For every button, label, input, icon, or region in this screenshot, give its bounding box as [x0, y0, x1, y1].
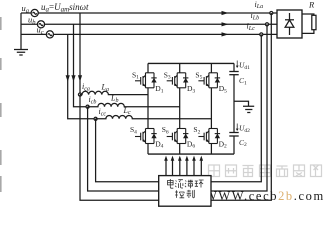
wire phase B line — [45, 23, 277, 25]
watermark row 1 (chinese outline chars) — [209, 165, 322, 177]
wire DC top rail — [148, 62, 234, 64]
gate signal arrow 3 — [178, 156, 182, 176]
svg-text:R: R — [308, 0, 315, 10]
transistor S5 + diode D5 — [198, 73, 220, 88]
ground (DC midpoint) — [243, 106, 254, 112]
wire phase C line — [54, 33, 278, 35]
wire DC bottom rail — [148, 153, 234, 155]
wire leg C bottom — [210, 144, 212, 155]
control box text line1: dian liu zhi huan — [168, 179, 204, 188]
inductor La — [80, 91, 148, 94]
wire tap B vertical — [74, 24, 88, 106]
transistor S6 + diode D6 — [167, 129, 189, 144]
node dot B (inductor input) — [86, 105, 89, 108]
wire load feedback C — [211, 34, 261, 181]
wire C1 to C2 — [233, 75, 235, 133]
source bus wire — [20, 13, 22, 50]
inductor Lb — [88, 103, 180, 106]
gate signal arrow 4 — [185, 156, 189, 176]
gate signal arrow 5 — [192, 156, 196, 176]
left edge scan artifacts — [0, 17, 2, 192]
label Ud1 arrow — [236, 61, 238, 68]
wire APF feedback B — [88, 107, 159, 191]
arrow iLb — [222, 22, 229, 26]
transistor S4 + diode D4 — [135, 129, 157, 144]
capacitor C1 — [233, 63, 235, 71]
wire APF feedback C — [96, 119, 159, 182]
AC source uc — [46, 31, 53, 38]
control box text line2: kong zhi — [175, 190, 194, 198]
wire leg A mid — [147, 88, 149, 129]
wire phase A left — [21, 12, 31, 14]
inductor Lc — [96, 116, 212, 119]
node dot C (inductor input) — [94, 117, 97, 120]
wire leg B bottom — [179, 144, 181, 155]
ground (source) — [14, 50, 28, 56]
arrow icc — [66, 75, 70, 82]
wire leg C top — [210, 63, 212, 72]
rectifier load box — [277, 10, 302, 38]
wire phase A line — [38, 12, 277, 14]
arrow ica — [78, 75, 82, 82]
wire leg A bottom — [147, 144, 149, 155]
wire leg C mid — [210, 88, 212, 129]
AC source ub — [37, 21, 44, 28]
wire leg B top — [179, 63, 181, 72]
gate signal arrow 1 — [164, 156, 168, 176]
transistor S2 + diode D2 — [198, 129, 220, 144]
arrow iLa — [222, 11, 229, 15]
transistor S3 + diode D3 — [167, 73, 189, 88]
node dot phase B load tap — [265, 23, 268, 26]
diode (load) — [285, 13, 294, 35]
gate signal arrow 6 — [200, 156, 204, 176]
wire load feedback A — [211, 13, 271, 200]
wire midpoint to ground — [234, 101, 249, 106]
node dot phase C load tap — [260, 33, 263, 36]
wire load feedback B — [211, 24, 267, 191]
wire tap C vertical — [68, 34, 96, 118]
wire tap A vertical — [79, 13, 81, 95]
wire phase B left — [21, 23, 37, 25]
arrow iLc — [222, 32, 229, 36]
node dot A (inductor input) — [78, 93, 81, 96]
arrow icb — [71, 75, 75, 82]
wire APF feedback A — [80, 95, 159, 201]
control box — [159, 176, 211, 207]
wire leg B mid — [179, 88, 181, 129]
capacitor C2 — [229, 132, 238, 134]
label Ud2 arrow — [236, 124, 238, 131]
AC source ua — [31, 9, 38, 16]
wire leg A top — [147, 63, 149, 72]
transistor S1 + diode D1 — [135, 73, 157, 88]
wire phase C left — [21, 33, 46, 35]
resistor R — [302, 14, 316, 33]
node dot phase A load tap — [270, 11, 273, 14]
gate signal arrow 2 — [171, 156, 175, 176]
